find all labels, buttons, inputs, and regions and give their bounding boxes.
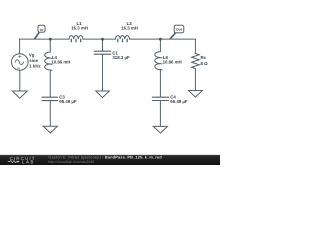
capacitor C4 — [152, 97, 168, 100]
node junction dot B (C1 tap) — [101, 38, 104, 41]
flag stub Out — [170, 33, 175, 38]
svg-text:10.86 mH: 10.86 mH — [163, 59, 182, 64]
wire right drop to Rc — [194, 39, 196, 53]
inductor L6 — [155, 52, 161, 70]
svg-text:Out: Out — [176, 27, 183, 31]
wire branch L4 lead — [49, 39, 51, 52]
logo arrow — [17, 161, 20, 163]
wire Rc to ground — [194, 69, 196, 91]
wire top net segment A — [20, 38, 69, 40]
inductor L4 — [45, 52, 51, 70]
svg-text:95.49 µF: 95.49 µF — [59, 99, 77, 104]
svg-text:In: In — [40, 28, 43, 32]
flag stub In — [35, 33, 39, 38]
wire left drop to source — [19, 39, 21, 54]
voltage source minus sign — [18, 67, 20, 69]
voltage source sine wave — [15, 60, 23, 65]
ground (source) — [12, 91, 27, 98]
ground (C4) — [153, 126, 167, 133]
svg-text:Rc: Rc — [201, 55, 207, 60]
svg-text:sine: sine — [29, 58, 38, 63]
flag Out box — [174, 25, 184, 33]
voltage source Vg circle — [11, 54, 28, 71]
ground (C3) — [43, 126, 57, 133]
svg-text:Gastón E. Pérez (gastonep) / B: Gastón E. Pérez (gastonep) / BandPass_PB… — [48, 156, 162, 160]
wire C1 lead — [102, 39, 104, 51]
svg-text:8 Ω: 8 Ω — [201, 61, 209, 66]
wire C4 to ground — [159, 101, 161, 127]
wire L6 to C4 — [159, 70, 161, 97]
capacitor C1 — [94, 51, 111, 54]
wire C1 to ground — [102, 54, 104, 91]
wire branch L6 lead — [159, 39, 161, 51]
svg-text:http://circuitlab.com/cav2v96: http://circuitlab.com/cav2v96 — [48, 160, 94, 164]
voltage source plus sign — [19, 55, 21, 57]
svg-text:318.3 µF: 318.3 µF — [112, 55, 130, 60]
resistor Rc — [192, 54, 200, 69]
svg-text:LAB: LAB — [22, 160, 35, 165]
wire L4 to C3 — [49, 70, 51, 97]
inductor L1 — [69, 36, 83, 40]
node junction dot A (L4 tap) — [49, 38, 52, 41]
ground (Rc) — [188, 91, 202, 98]
flag In box — [38, 25, 45, 32]
inductor L2 — [116, 36, 130, 40]
wire source to ground — [19, 70, 21, 91]
wire C3 to ground — [49, 101, 51, 126]
capacitor C3 — [42, 97, 58, 100]
svg-text:Vg: Vg — [29, 52, 35, 57]
wire top net segment B — [83, 38, 116, 40]
svg-text:1 kHz: 1 kHz — [29, 63, 41, 68]
node junction dot C (L6 tap) — [159, 38, 162, 41]
svg-text:10.86 mH: 10.86 mH — [51, 59, 70, 64]
logo resistor zigzag — [8, 161, 18, 163]
svg-text:16.3 mH: 16.3 mH — [121, 26, 138, 31]
wire top net segment C — [130, 38, 196, 40]
svg-text:95.49 µF: 95.49 µF — [170, 99, 188, 104]
svg-text:16.3 mH: 16.3 mH — [71, 26, 88, 31]
ground (C1) — [96, 91, 110, 98]
